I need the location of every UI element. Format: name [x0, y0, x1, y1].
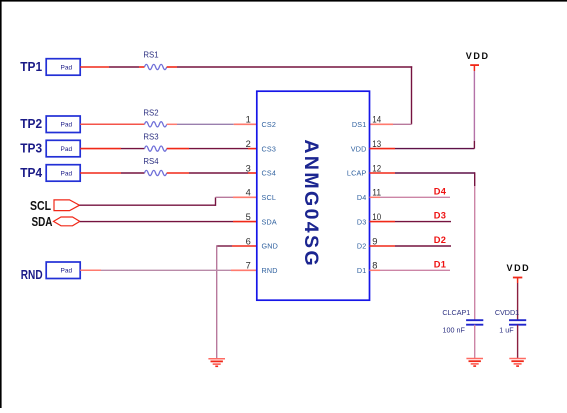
power symbol VDD (right): [506, 263, 530, 278]
wire SCL to pin 4: [80, 197, 257, 206]
port symbol SDA: [54, 217, 80, 226]
svg-text:14: 14: [372, 115, 381, 125]
resistor RS1: [143, 50, 166, 69]
wire TP1 pad to RS1: [80, 66, 144, 68]
pad TP1: [46, 59, 80, 75]
sheet border top: [0, 0, 567, 2]
svg-text:D3: D3: [357, 217, 367, 226]
pin 5 label SDA: [246, 212, 277, 226]
svg-text:TP4: TP4: [20, 165, 43, 180]
resistor RS2: [143, 108, 166, 127]
pad TP3: [46, 140, 80, 157]
svg-text:VDD: VDD: [351, 144, 367, 153]
pin 11 label D4: [357, 188, 381, 202]
wire vertical down to DS1 pin 14: [370, 66, 412, 124]
pin 4 label SCL: [246, 188, 276, 202]
wire RS1 to pin14 net: [167, 66, 413, 68]
svg-text:SCL: SCL: [30, 199, 51, 213]
pin 12 label LCAP: [347, 163, 381, 177]
svg-text:RS4: RS4: [143, 157, 159, 166]
pin 13 label VDD: [351, 139, 381, 153]
svg-text:TP1: TP1: [20, 59, 42, 74]
wire CVDD1 to ground: [517, 325, 519, 359]
ground symbol (CLCAP1): [466, 359, 483, 367]
svg-text:RS2: RS2: [143, 108, 158, 117]
svg-text:RND: RND: [262, 266, 278, 275]
svg-text:SCL: SCL: [262, 193, 277, 202]
svg-text:RS1: RS1: [143, 50, 158, 59]
svg-text:8: 8: [372, 261, 377, 271]
svg-text:TP2: TP2: [20, 116, 42, 131]
pin 1 label CS2: [246, 115, 276, 129]
wire pin 13 VDD: [370, 148, 475, 150]
wire TP2 pad to RS2: [80, 123, 144, 125]
wire TP3 pad to RS3: [80, 148, 144, 150]
resistor RS3: [143, 133, 166, 152]
svg-text:7: 7: [246, 261, 251, 271]
svg-text:VDD: VDD: [466, 51, 490, 61]
svg-text:12: 12: [372, 163, 381, 173]
pin 2 label CS3: [246, 139, 276, 153]
pin 10 label D3: [357, 212, 381, 226]
svg-text:DS1: DS1: [352, 120, 367, 129]
svg-text:2: 2: [246, 139, 251, 149]
svg-text:Pad: Pad: [61, 146, 73, 153]
sheet border left: [0, 0, 2, 408]
svg-text:D4: D4: [357, 193, 367, 202]
wire pin D1: [370, 269, 451, 271]
svg-text:D1: D1: [434, 259, 447, 269]
wire RS3 to pin 2: [167, 148, 257, 150]
svg-text:5: 5: [246, 212, 251, 222]
svg-text:CVDD1: CVDD1: [495, 308, 519, 317]
svg-text:SDA: SDA: [262, 217, 277, 226]
wire VDD vertical: [473, 66, 475, 149]
svg-text:Pad: Pad: [61, 64, 73, 71]
wire pin 12 LCAP: [370, 172, 476, 174]
svg-text:RND: RND: [21, 267, 43, 282]
wire pin D3: [370, 221, 452, 223]
svg-text:Pad: Pad: [61, 268, 73, 275]
svg-text:D1: D1: [357, 266, 367, 275]
wire LCAP vertical to CLCAP1: [474, 172, 476, 319]
svg-text:CS3: CS3: [262, 144, 277, 153]
svg-text:10: 10: [372, 212, 381, 222]
port symbol SCL: [54, 200, 80, 211]
wire pin D2: [370, 245, 452, 247]
svg-text:1 uF: 1 uF: [499, 326, 514, 335]
svg-text:GND: GND: [262, 242, 279, 251]
wire RS2 to pin 1: [167, 123, 257, 125]
svg-text:D2: D2: [434, 235, 447, 245]
svg-text:D4: D4: [434, 186, 447, 196]
pad RND: [46, 262, 80, 279]
wire RS4 to pin 3: [167, 172, 257, 174]
svg-text:CS2: CS2: [262, 120, 277, 129]
svg-text:ANMG04SG: ANMG04SG: [300, 139, 322, 268]
svg-text:D3: D3: [434, 211, 447, 221]
pin 9 label D2: [357, 236, 378, 250]
svg-text:11: 11: [372, 188, 381, 198]
capacitor CLCAP1: [442, 308, 483, 335]
svg-text:100 nF: 100 nF: [443, 326, 466, 335]
resistor RS4: [143, 157, 166, 176]
svg-text:TP3: TP3: [20, 141, 42, 156]
svg-text:1: 1: [246, 115, 251, 125]
pad TP4: [46, 165, 80, 182]
power symbol VDD (top): [466, 51, 490, 65]
svg-text:VDD: VDD: [506, 263, 530, 273]
wire TP4 pad to RS4: [80, 172, 144, 174]
wire CLCAP1 to ground: [474, 325, 476, 359]
svg-text:Pad: Pad: [61, 170, 73, 177]
wire pin 6 GND to ground: [217, 245, 257, 358]
wire SDA to pin 5: [80, 221, 257, 223]
pin 8 label D1: [357, 261, 378, 275]
svg-text:RS3: RS3: [143, 133, 158, 142]
pin 7 label RND: [246, 261, 278, 275]
wire pin D4: [370, 196, 451, 198]
svg-text:SDA: SDA: [32, 215, 53, 229]
svg-text:CS4: CS4: [262, 169, 277, 178]
svg-text:Pad: Pad: [61, 122, 73, 129]
pad TP2: [46, 116, 80, 133]
svg-text:4: 4: [246, 188, 251, 198]
svg-text:LCAP: LCAP: [347, 169, 367, 178]
svg-text:D2: D2: [357, 242, 367, 251]
wire RND pad to pin 7: [80, 269, 257, 271]
pin 3 label CS4: [246, 163, 276, 177]
op-amp / IC U1 ANMG04SG body: [257, 91, 370, 300]
wire VDD to CVDD1: [517, 278, 519, 321]
pin 6 label GND: [246, 236, 278, 250]
svg-text:9: 9: [372, 236, 377, 246]
svg-text:3: 3: [246, 163, 251, 173]
capacitor CVDD1: [495, 308, 526, 335]
svg-text:CLCAP1: CLCAP1: [442, 308, 470, 317]
ground symbol (CVDD1): [509, 359, 526, 367]
ground symbol (GND net): [208, 359, 225, 367]
pin 14 label DS1: [352, 115, 381, 129]
svg-text:13: 13: [372, 139, 381, 149]
svg-text:6: 6: [246, 236, 251, 246]
